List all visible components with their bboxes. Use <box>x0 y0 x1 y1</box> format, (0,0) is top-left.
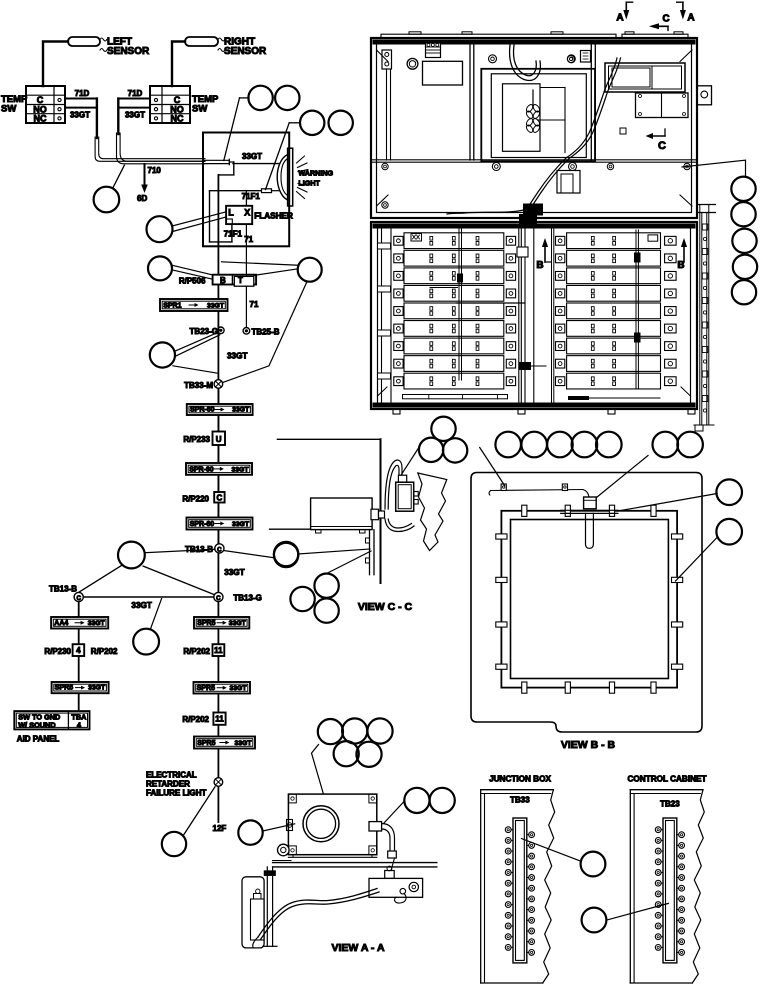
svg-text:C: C <box>76 595 81 602</box>
svg-text:SW: SW <box>192 104 207 115</box>
svg-text:710: 710 <box>148 166 162 175</box>
svg-text:VIEW A - A: VIEW A - A <box>331 942 384 954</box>
main wire below TB33-M <box>217 389 219 544</box>
svg-text:SENSOR: SENSOR <box>107 46 150 57</box>
svg-text:U: U <box>216 435 222 444</box>
svg-text:C: C <box>217 493 223 502</box>
svg-text:33GT: 33GT <box>207 303 225 310</box>
section arrow B right <box>677 238 687 271</box>
view A-A elbow and hose <box>369 822 396 858</box>
svg-text:4: 4 <box>76 646 81 655</box>
wire bundle from SW1 down <box>95 99 205 162</box>
view C-C balloon cluster top <box>419 417 467 463</box>
receptacle plug R/P233 pin U <box>183 432 225 446</box>
view A-A leader from balloons <box>312 745 324 794</box>
svg-text:SPR1: SPR1 <box>163 303 181 310</box>
svg-text:12F: 12F <box>213 824 227 833</box>
svg-text:33GT: 33GT <box>232 466 250 473</box>
svg-text:A: A <box>616 13 623 24</box>
svg-text:33GT: 33GT <box>70 111 90 120</box>
svg-text:W/ SOUND: W/ SOUND <box>18 720 55 729</box>
grid feet <box>393 409 695 414</box>
view C-C connector fitting <box>371 509 385 520</box>
control cabinet balloon <box>582 903 669 932</box>
svg-text:C: C <box>216 595 221 602</box>
svg-text:LIGHT: LIGHT <box>298 179 320 188</box>
junction box balloon <box>522 839 606 877</box>
left grid vertical rod <box>430 229 525 380</box>
svg-text:R/P230: R/P230 <box>44 647 71 656</box>
svg-text:71F1: 71F1 <box>224 230 243 239</box>
svg-text:TB33: TB33 <box>510 796 530 805</box>
grid left rail <box>378 229 392 402</box>
svg-text:SPR5: SPR5 <box>197 740 215 747</box>
terminal TB25-B <box>243 328 280 337</box>
svg-text:33GT: 33GT <box>232 407 250 414</box>
view B-B balloon row <box>495 432 702 458</box>
svg-text:SENSOR: SENSOR <box>224 46 267 57</box>
svg-text:71D: 71D <box>128 89 143 98</box>
right side channel strip <box>694 205 716 432</box>
svg-text:TB23: TB23 <box>660 800 680 809</box>
terminal TB13-B upper <box>185 544 224 554</box>
terminal TB33-M <box>184 380 223 390</box>
svg-text:33GT: 33GT <box>235 740 253 747</box>
wire harness lower run <box>447 158 569 216</box>
wire harness top view <box>566 58 626 159</box>
wire 33GT from SW2 <box>118 108 150 120</box>
right balloon stack <box>731 177 757 305</box>
svg-text:33GT: 33GT <box>229 620 247 627</box>
svg-text:33GT: 33GT <box>242 152 262 161</box>
svg-text:T: T <box>238 276 243 285</box>
callout balloon pair 2 <box>224 86 300 161</box>
svg-text:33GT: 33GT <box>88 620 106 627</box>
view C-C title <box>358 601 413 613</box>
view A-A title <box>331 942 384 954</box>
view C-C torn panel <box>418 473 447 551</box>
svg-text:71F1: 71F1 <box>242 192 261 201</box>
view A-A balloon left <box>238 820 294 844</box>
view A-A retarder control box <box>288 794 376 857</box>
center channel <box>517 214 546 402</box>
view C-C balloon cluster bottom <box>290 551 371 623</box>
lower compartment details <box>382 163 690 208</box>
callout balloon 8 triangle junction <box>79 542 215 595</box>
right sensor <box>185 37 267 58</box>
electrical retarder failure light label <box>146 771 207 798</box>
temp switch SW2 <box>150 86 219 124</box>
view B-B balloons right <box>716 479 742 544</box>
splice box SPR-60 #1 <box>187 404 253 415</box>
left compartment panel <box>407 58 462 85</box>
view C-C leader to balloons <box>401 447 420 476</box>
svg-text:33GT: 33GT <box>232 521 250 528</box>
svg-text:JUNCTION BOX: JUNCTION BOX <box>489 775 551 784</box>
callout balloon 1 <box>94 165 125 212</box>
svg-text:NC: NC <box>34 114 47 124</box>
svg-text:R/P202: R/P202 <box>183 647 210 656</box>
callout balloon 7 with leaders to TB23-G <box>150 333 248 374</box>
flasher 71F1 <box>226 206 293 224</box>
splice box SPR-60 #3 <box>187 518 253 530</box>
wire 71 from flasher down <box>224 224 254 275</box>
svg-text:71D: 71D <box>75 89 90 98</box>
svg-text:33GT: 33GT <box>131 601 151 610</box>
view A-A cable harness <box>253 889 406 948</box>
main wire 33GT vertical run <box>217 175 219 544</box>
svg-text:33GT: 33GT <box>125 111 145 120</box>
view A-A mounting plate <box>263 867 277 946</box>
grid bottom bar <box>403 395 661 401</box>
right grid terminals <box>556 236 677 385</box>
cabinet top lid line <box>381 32 688 38</box>
top right control box <box>568 51 686 93</box>
svg-text:SW: SW <box>1 104 16 115</box>
grid cabinet frame <box>371 222 697 409</box>
svg-text:ELECTRICAL: ELECTRICAL <box>146 771 197 780</box>
right grid vertical rod <box>552 229 641 402</box>
wire 71D from SW1 <box>65 89 97 99</box>
hose loop top <box>510 45 541 80</box>
splice box SPR1-33GT <box>160 299 228 311</box>
callout balloon 6 with leaders <box>222 258 322 383</box>
junction box panel TB33 <box>481 775 555 984</box>
wire TB13-B to balloon right <box>224 543 298 577</box>
view A-A left bracket <box>242 877 264 948</box>
svg-text:A: A <box>687 13 694 24</box>
terminal TB13-B lower <box>49 585 83 602</box>
view B-B sensor plug <box>584 497 597 548</box>
main wire TB13-B to TB13-G <box>217 553 219 592</box>
sub panel below control box <box>636 93 689 118</box>
svg-text:71: 71 <box>244 235 253 244</box>
svg-text:SPR-60: SPR-60 <box>190 407 215 414</box>
view B-B frame clamp lugs <box>496 505 683 693</box>
wire 71 into T terminal <box>246 275 259 328</box>
splice box AA4-33GT <box>51 617 108 629</box>
splice box SPR5 right 1 <box>194 617 249 629</box>
svg-text:FAILURE LIGHT: FAILURE LIGHT <box>146 789 207 798</box>
wire 33GT into box <box>203 159 234 175</box>
section arrow A right <box>677 2 695 23</box>
left grid tag plate <box>411 234 422 242</box>
terminal TB23-G <box>190 327 225 336</box>
svg-text:33GT: 33GT <box>230 685 248 692</box>
svg-text:CONTROL CABINET: CONTROL CABINET <box>628 775 707 784</box>
svg-text:C: C <box>658 140 666 152</box>
svg-text:VIEW B - B: VIEW B - B <box>561 739 616 751</box>
svg-text:SPR5: SPR5 <box>197 620 215 627</box>
right resistor grid rows <box>567 233 661 389</box>
right grid resistor elements <box>591 236 615 385</box>
callout balloon 10 <box>162 787 215 856</box>
receptacle plug R/P506 <box>179 275 256 286</box>
svg-text:B: B <box>220 276 226 285</box>
svg-text:AA4: AA4 <box>54 620 68 627</box>
view A-A base plate <box>273 861 437 867</box>
svg-text:SPR-60: SPR-60 <box>190 521 215 528</box>
fan box corner bolts <box>489 55 577 171</box>
receptacle plug R/P220 pin C <box>182 492 224 503</box>
wire from flasher X up <box>245 191 247 206</box>
svg-text:TB13-G: TB13-G <box>233 594 261 603</box>
wire 33GT between TB13 terminals <box>84 597 214 610</box>
view C-C resistor box <box>270 498 373 533</box>
view B-B cover panel <box>471 473 702 733</box>
wire left sensor to temp switch 1 <box>43 42 68 87</box>
view C-C solenoid valve <box>396 475 419 511</box>
receptacle plug R/P202 pin 11 upper <box>183 644 224 656</box>
svg-text:FLASHER: FLASHER <box>254 212 293 221</box>
splice box SPR5 left <box>52 682 109 693</box>
svg-text:C: C <box>662 14 669 25</box>
main wire TB13-G down <box>217 602 219 777</box>
receptacle plug R/P230 R/P202 pin 4 <box>44 644 118 656</box>
left resistor grid rows <box>404 233 504 389</box>
svg-text:6D: 6D <box>137 194 147 203</box>
svg-text:X: X <box>244 208 250 218</box>
section arrow B left <box>536 238 551 271</box>
wire 33GT from SW1 <box>65 108 97 120</box>
terminal TB13-G <box>214 592 262 602</box>
view A-A balloons right <box>384 788 455 823</box>
left top connector <box>426 43 441 58</box>
view C-C bracket <box>366 530 375 575</box>
svg-text:R/P202: R/P202 <box>182 715 209 724</box>
view A-A switch box <box>369 858 423 897</box>
view A-A left eyelet <box>278 820 293 856</box>
wire 33GT to warning light <box>233 152 279 164</box>
left grid resistor elements <box>430 236 479 385</box>
splice box SPR5 right 2 <box>194 682 251 694</box>
svg-text:33GT: 33GT <box>224 568 244 577</box>
lower rail lines <box>371 160 697 162</box>
cabinet outer frame top view <box>371 38 697 218</box>
callout balloon pair 3 <box>266 111 353 190</box>
svg-text:VIEW C - C: VIEW C - C <box>358 601 413 613</box>
right grid tag plate <box>648 235 658 241</box>
right side lug <box>697 86 712 105</box>
svg-text:R/P220: R/P220 <box>182 494 209 503</box>
svg-text:L: L <box>228 208 234 218</box>
junction box outline <box>203 133 289 247</box>
aid panel box SW TO GND <box>14 711 89 743</box>
callout balloon 5 leader to B <box>148 256 213 280</box>
svg-text:NC: NC <box>171 114 184 124</box>
receptacle plug R/P202 pin 11 lower <box>182 713 225 725</box>
left branch wire down <box>78 602 80 711</box>
svg-text:TB13-B: TB13-B <box>49 585 77 594</box>
svg-text:C: C <box>217 546 222 553</box>
warning light <box>277 148 333 206</box>
svg-text:B: B <box>536 260 543 271</box>
callout balloon 9 <box>133 599 161 655</box>
temp switch SW1 <box>1 86 65 124</box>
svg-text:RETARDER: RETARDER <box>146 780 190 789</box>
control cabinet panel TB23 <box>628 775 707 984</box>
svg-text:R/P233: R/P233 <box>183 435 210 444</box>
wire right sensor to temp switch 2 <box>172 42 185 87</box>
svg-text:SPR-60: SPR-60 <box>189 466 214 473</box>
callout balloon 4 with leader to flasher L <box>147 212 227 242</box>
splice box SPR5 right 3 <box>194 737 255 749</box>
section arrow C top <box>649 14 670 31</box>
svg-text:TB25-B: TB25-B <box>252 328 280 337</box>
leader line to right balloons <box>682 160 746 176</box>
svg-text:SPR5: SPR5 <box>197 685 215 692</box>
view A-A balloon cluster <box>318 718 393 767</box>
svg-text:SPR5: SPR5 <box>55 685 73 692</box>
svg-text:71: 71 <box>250 300 259 309</box>
wire 710 arrow <box>137 164 161 203</box>
svg-text:11: 11 <box>214 646 223 655</box>
wire bundle from SW2 down <box>117 99 206 164</box>
svg-text:B: B <box>677 260 684 271</box>
svg-text:TB33-M: TB33-M <box>184 381 213 390</box>
view C-C balloon left <box>274 542 370 566</box>
svg-text:33GT: 33GT <box>227 352 247 361</box>
wire 71F1 to warning light <box>210 189 279 242</box>
view B-B grid frame outer <box>501 511 677 688</box>
wire 71D from SW2 <box>118 89 150 99</box>
section arrow C mid <box>646 129 667 152</box>
fan compartment frame <box>481 69 595 162</box>
view C-C hose loop <box>385 460 414 531</box>
view B-B top bar <box>561 510 618 513</box>
svg-text:R/P202: R/P202 <box>91 647 118 656</box>
center divider rails <box>470 44 595 160</box>
splice terminal 12F <box>213 778 227 833</box>
view B-B title <box>561 739 616 751</box>
section arrow A left <box>616 2 632 23</box>
splice box SPR-60 #2 <box>186 463 252 475</box>
svg-text:R/P506: R/P506 <box>179 276 206 285</box>
svg-text:33GT: 33GT <box>88 685 106 692</box>
svg-text:AID PANEL: AID PANEL <box>17 735 60 744</box>
view B-B leader lines <box>480 448 718 582</box>
svg-text:11: 11 <box>215 715 224 724</box>
view C-C mounting panel <box>277 439 380 583</box>
left bolt plate <box>382 50 392 160</box>
view B-B wire at top <box>489 484 589 497</box>
svg-text:WARNING: WARNING <box>298 169 333 178</box>
left sensor <box>68 37 150 58</box>
left grid terminals <box>394 236 516 385</box>
fan blades <box>525 90 541 134</box>
